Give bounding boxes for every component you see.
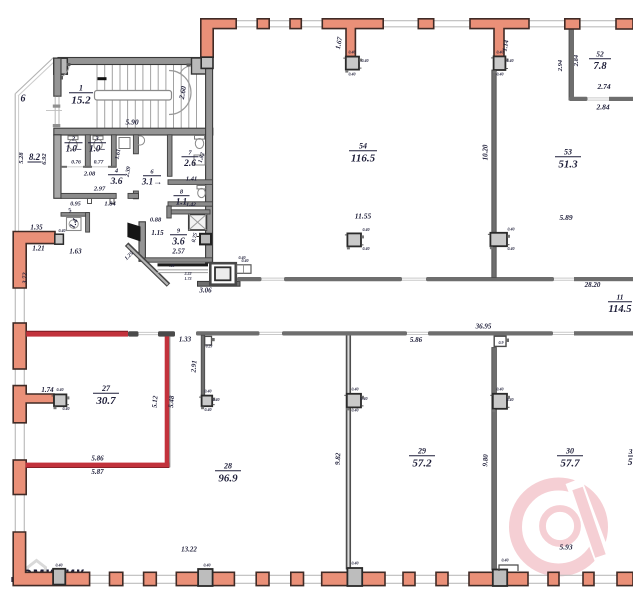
room 5 label 1.4 [68,208,80,230]
room 1 stairwell 15.2 [69,84,93,107]
svg-text:57.7: 57.7 [560,458,580,470]
wall: corridor bottom segment a [196,331,260,335]
svg-text:.08: .08 [170,263,175,268]
room 11 corridor 114.5 [608,293,632,316]
wall: room 9 bottom [145,258,213,262]
window band: bottom exterior wall [26,575,633,583]
wall: lobby right (exterior interior side) [206,68,213,263]
svg-text:0.40: 0.40 [508,227,515,232]
bracket detail above bottom pier 4 [499,565,518,571]
svg-text:30.7: 30.7 [95,395,116,407]
pink wall: left-bottom corner L [13,532,89,586]
red wall: room 27 right vertical [165,336,170,467]
balcony dimension tick [46,110,62,112]
wall: rooms 28/29 divider (double line) [347,336,351,570]
wall: bottom block door piece [128,193,139,198]
fixture: shower room 9 [189,214,207,230]
svg-text:0.40: 0.40 [352,408,359,413]
svg-text:27: 27 [101,384,111,393]
room 54 116.5 [349,142,377,165]
wall: bottom of rooms 4-5 block [61,193,116,198]
svg-text:57: 57 [628,458,633,468]
pink wall: top T pier 2 [470,19,529,57]
lobby threshold thin lines [158,270,209,273]
pink pier: top block d (room 52 corner) [565,19,580,29]
lobby step black strip [158,263,209,266]
wall: room 28 stub from corridor [201,335,205,396]
column: top outer pier below pink L [201,57,213,68]
pink wall: top-left L pier [201,19,236,57]
svg-text:2.91: 2.91 [189,360,198,374]
door jamb: room 30 entrance [494,336,509,346]
wall: staircase bottom [54,128,213,135]
staircase central rail [95,91,172,101]
room 52 7.8 [589,50,611,73]
wall: corridor top segment a [237,277,262,281]
wall: partition right of room 4 upper [133,135,138,154]
micro dimension specks [56,50,515,568]
svg-text:5.12: 5.12 [150,395,159,408]
wall: corridor bottom segment c [428,331,553,335]
door line: corridor bottom gap c [553,332,574,334]
pink pier: bottom-right corner block [617,572,633,585]
svg-text:0.40: 0.40 [63,406,70,411]
svg-text:3.6: 3.6 [171,237,185,248]
svg-text:11.55: 11.55 [355,212,372,221]
room 29 57.2 [409,447,435,470]
svg-text:10.20: 10.20 [482,144,490,160]
svg-text:6: 6 [21,94,26,105]
wall: room 9 top [168,210,210,214]
fixture: washer room 4 [119,138,130,149]
wall: room 52 bottom segment [569,97,588,101]
column: on wall 29/30 [490,394,510,412]
svg-text:5.93: 5.93 [559,543,572,552]
svg-text:0.40: 0.40 [352,561,359,566]
wall: partition right of room 4 lower [133,191,138,199]
room 7 2.6 [182,150,199,170]
svg-text:2.84: 2.84 [595,103,609,112]
pink wall: left segment 1 with arm [13,232,55,289]
wall: room 5 top [61,213,89,217]
svg-text:1.21: 1.21 [32,245,44,253]
micro dimensions lobby threshold [170,263,192,281]
wall: staircase left [54,58,61,96]
room 30 57.7 [557,447,583,470]
svg-text:51.3: 51.3 [558,159,578,171]
svg-text:57.2: 57.2 [412,458,432,470]
pink pier: top block b [290,19,301,29]
pink wall: left segment 4 [13,460,26,495]
door arc: staircase top-right [180,64,191,75]
svg-text:1.33: 1.33 [179,336,192,344]
wall: corridor bottom segment d [574,331,633,335]
column: bottom wall pier 4 [493,570,507,587]
pink wall: left segment 2 [13,323,26,369]
svg-text:2.84: 2.84 [573,54,580,67]
staircase U-turn arc [169,71,191,115]
wall: room 52 left [569,29,573,100]
svg-text:0.40: 0.40 [497,387,504,392]
wall: under room 8 [168,202,213,206]
wall: partition left of room 7 [167,135,172,177]
svg-text:1.63: 1.63 [69,248,82,256]
svg-text:7.8: 7.8 [593,61,607,72]
svg-text:0.77: 0.77 [94,160,104,166]
svg-text:0.40: 0.40 [497,72,504,77]
balcony outline: diagonal parapet [16,58,56,97]
pink pier: bottom block e [256,572,269,585]
svg-text:0.95: 0.95 [70,202,81,208]
room 28 96.9 [215,462,241,485]
wall: staircase top-left corner block [54,58,68,74]
svg-text:5.87: 5.87 [91,468,104,476]
svg-text:0.40: 0.40 [59,228,66,233]
room 3 wc 1.0 [88,136,106,154]
wall: WC block left bar [54,135,61,199]
room 53 51.3 [555,148,581,171]
svg-text:0.40: 0.40 [349,50,356,55]
column: on wall 28/29 [344,394,364,411]
pink pier: bottom block l [583,572,594,585]
svg-text:1.74: 1.74 [41,386,54,394]
svg-text:13.22: 13.22 [181,546,197,554]
svg-text:11: 11 [616,293,623,302]
svg-text:1.41: 1.41 [186,176,197,183]
balcony outline: vertical parapet [15,94,18,232]
svg-text:3.72: 3.72 [22,272,29,285]
column: free-standing room 54 [345,233,364,249]
svg-text:0.40: 0.40 [205,407,212,412]
svg-text:9.80: 9.80 [481,454,490,467]
svg-text:0.40: 0.40 [361,396,368,401]
svg-text:3.6: 3.6 [110,177,123,187]
svg-text:96.9: 96.9 [218,473,238,485]
svg-text:116.5: 116.5 [351,153,376,165]
svg-text:1.84: 1.84 [104,201,116,208]
svg-text:0.40: 0.40 [507,58,514,63]
wall: staircase top (room 1) [58,58,201,65]
svg-text:0.40: 0.40 [205,389,212,394]
door line: corridor top gap b [402,278,426,280]
svg-text:8.2: 8.2 [29,152,41,162]
pink pier: bottom block h [403,572,415,585]
fixture: sink room 7 [194,155,205,165]
svg-text:3.1→: 3.1→ [141,177,162,187]
svg-text:0.40: 0.40 [508,246,515,251]
pink pier: bottom block i [436,572,448,585]
wall: room 52 bottom right segment [609,97,633,101]
svg-text:0.29: 0.29 [206,345,213,349]
column: left arm 1.74 pier [52,394,70,409]
door jamb: room 28 stub top [205,336,215,348]
svg-text:31: 31 [628,447,633,456]
pink wall: left segment 3 with arm (1.74 stub) [13,386,54,423]
wall: lobby diagonal [127,244,169,285]
svg-text:1.0–: 1.0– [66,144,82,154]
svg-text:52: 52 [596,50,604,59]
svg-text:114.5: 114.5 [608,304,631,315]
svg-text:2.74: 2.74 [596,82,610,91]
wall: rooms 53/54 divider upper [492,70,496,278]
entry steps [237,265,252,274]
balcony area 8.2 [28,152,42,162]
svg-text:5.86: 5.86 [410,336,423,344]
svg-text:0.40: 0.40 [363,227,370,232]
wall: corridor top segment c [426,277,554,281]
door line: corridor bottom gap b [407,332,428,334]
room 4 3.6 [108,168,125,188]
door line: room 52 bottom gap [588,98,610,100]
clipped room 31 label at right edge [628,447,633,468]
svg-text:1.42: 1.42 [186,202,196,208]
svg-text:0.40: 0.40 [239,255,246,260]
pink pier: bottom bar d [176,572,234,585]
wall cap: gray segment after red top [128,331,139,336]
window: staircase left balcony door [53,97,61,128]
svg-text:5.28: 5.28 [18,152,25,164]
column: stub wall pier room 28 [199,396,215,410]
door line: corridor top gap c [554,278,574,280]
door line: corridor bottom gap a [260,332,283,334]
svg-text:36.95: 36.95 [475,322,492,330]
svg-text:1.0–: 1.0– [89,144,105,154]
svg-text:30: 30 [565,447,574,456]
svg-text:28: 28 [223,462,232,471]
svg-text:2.57: 2.57 [171,248,185,256]
svg-text:0.40: 0.40 [213,397,220,402]
red wall: top edge highlight [26,330,128,332]
column: on wall 53/54 [488,233,510,249]
svg-text:28.20: 28.20 [584,281,601,289]
svg-text:0.40: 0.40 [497,50,504,55]
room 8 1.1 [174,189,190,207]
black corner fill left of room 9 [127,223,140,242]
fixture: toilet room 8 [197,186,206,198]
svg-text:5.48: 5.48 [167,395,176,408]
room 2 wc 1.0 [65,136,83,154]
red wall: vertical shadow edge [169,336,171,467]
svg-text:6.92: 6.92 [41,153,48,165]
svg-text:29: 29 [417,447,426,456]
svg-text:0.40: 0.40 [349,72,356,77]
fixture: elevator call panel room 9 [197,234,212,245]
pink pier: top-right corner block [616,19,633,29]
wall: room 9 left [139,222,145,261]
fixture: sink room 5 [67,218,82,231]
svg-text:1.35: 1.35 [30,224,43,232]
svg-text:0.40: 0.40 [57,387,64,392]
svg-text:0.40: 0.40 [362,58,369,63]
svg-text:54: 54 [359,142,367,151]
room 27 30.7 [93,384,119,407]
svg-text:0.9: 0.9 [499,340,504,345]
wall: staircase top-right block [192,58,207,74]
svg-text:0.76: 0.76 [71,160,81,166]
column: bottom wall pier 2 [198,569,213,586]
room 9 3.6 [170,228,187,248]
red wall: room 27 bottom [26,463,170,468]
fixture: toilet room 3 [93,136,103,150]
svg-text:0.40: 0.40 [507,397,514,402]
wall cap: gray segment over red vertical [158,331,175,336]
svg-text:1.15: 1.15 [151,229,164,237]
svg-text:53: 53 [564,148,572,157]
wall: corridor top segment d [574,277,633,281]
red wall: room 27 top [26,331,128,336]
pink pier: bottom bar j [469,572,528,585]
pink pier: bottom block b [110,572,123,585]
fixture: toilet room 7 [195,136,205,149]
wall: entry bottom [198,281,241,286]
window band: top exterior wall [236,21,633,27]
pink pier: bottom bar g [322,572,385,585]
door arc: staircase entry top-left [60,63,71,80]
wall: corridor bottom segment b [282,331,407,335]
column: bottom wall pier 1 [53,569,65,585]
staircase treads room 1 [97,65,197,129]
column: top T1 pier base [343,57,362,73]
wall: partition rooms 2/3 [85,135,90,167]
column: bottom wall pier 3 [347,568,362,586]
svg-text:3.06: 3.06 [198,287,212,295]
staircase direction arrow [98,77,107,80]
wall: corridor top segment b [284,277,402,281]
window band: left exterior wall [15,232,24,575]
wall: room 9 top-left jog [167,206,171,218]
column: top T2 pier base [491,56,508,73]
door marks below WC block [88,199,115,204]
wall: room 5 right [86,213,90,233]
svg-text:5.86: 5.86 [91,455,104,463]
pink pier: top block a [257,19,269,29]
red wall: bottom edge [26,467,170,469]
room 6 3.1 [141,169,162,187]
svg-text:5.89: 5.89 [559,213,572,222]
entry vestibule box [210,263,236,285]
svg-text:2.08: 2.08 [83,171,96,178]
door line: corridor top gap a [262,278,285,280]
svg-text:5.90: 5.90 [125,118,138,127]
fixture: toilet room 2 [68,136,78,150]
svg-text:1: 1 [79,84,83,93]
svg-text:2.6: 2.6 [183,159,196,169]
svg-text:9.82: 9.82 [334,452,343,465]
fixture: sink room 6 [135,136,144,145]
wall: partition right of room 3 [111,135,116,167]
pink pier: bottom block k [548,572,559,585]
svg-text:0.40: 0.40 [363,246,370,251]
svg-text:0.40: 0.40 [56,563,63,568]
svg-text:0.88: 0.88 [150,217,162,224]
door line: room 27 top gap [139,332,159,334]
watermark: domclick text and house icon [11,561,85,583]
svg-text:15.2: 15.2 [71,95,91,107]
svg-text:1.73: 1.73 [185,276,192,281]
svg-text:0.40: 0.40 [352,387,359,392]
svg-text:2.97: 2.97 [93,186,106,193]
svg-text:0.40: 0.40 [204,563,211,568]
watermark: Domclick circle logo [516,481,605,570]
svg-text:2.94: 2.94 [557,59,564,72]
wall: cubicle bottoms rooms 2-3 [61,166,116,168]
wall: rooms 29/30 divider [492,348,497,571]
wall: under room 7 [168,180,213,185]
column: room 5 door pier [55,234,64,244]
pink wall: top T pier 1 [322,19,383,57]
svg-text:0.40: 0.40 [502,558,509,563]
pink pier: bottom block c [144,572,157,585]
pink pier: bottom block f [291,572,304,585]
pink pier: top block c [418,19,433,29]
